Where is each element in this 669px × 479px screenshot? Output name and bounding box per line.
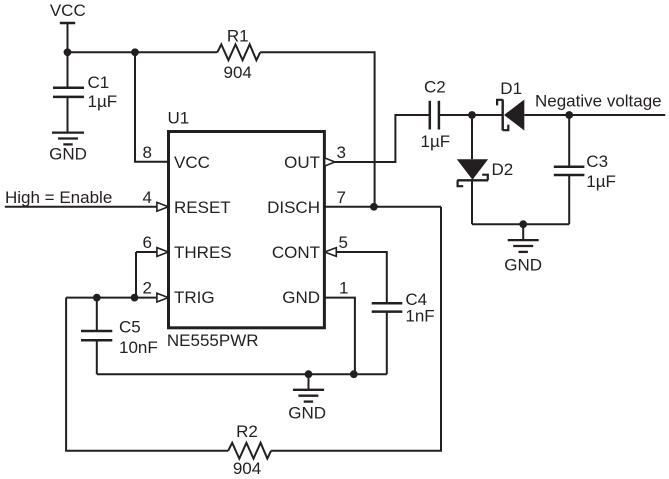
wire R2 to DISCH riser: [271, 207, 441, 451]
diode D1 (Schottky): [497, 79, 524, 131]
wire C2 to D1: [439, 114, 503, 116]
svg-text:6: 6: [143, 233, 152, 252]
svg-text:D2: D2: [492, 160, 514, 179]
svg-text:1nF: 1nF: [405, 307, 434, 326]
svg-text:CONT: CONT: [272, 243, 320, 262]
svg-text:3: 3: [337, 143, 346, 162]
svg-text:GND: GND: [504, 255, 542, 274]
wire RESET input: [5, 206, 157, 208]
svg-text:GND: GND: [282, 288, 320, 307]
svg-text:OUT: OUT: [284, 153, 320, 172]
svg-text:GND: GND: [49, 145, 87, 164]
diode D2 (Schottky): [457, 159, 513, 186]
node C2/D1/D2 junction: [468, 111, 476, 119]
svg-text:R2: R2: [236, 422, 258, 441]
svg-text:VCC: VCC: [174, 153, 210, 172]
svg-text:1: 1: [339, 278, 348, 297]
pin arrow TRIG: [157, 293, 168, 302]
svg-text:THRES: THRES: [174, 243, 232, 262]
wire ground rail: [97, 373, 387, 375]
svg-text:Negative voltage: Negative voltage: [535, 92, 662, 111]
svg-text:C3: C3: [586, 152, 608, 171]
U1 pin 7 DISCH label: [267, 188, 346, 217]
node VCC/C1 junction: [64, 48, 72, 56]
capacitor C2: [421, 78, 451, 151]
ground GND (below C1): [49, 133, 87, 164]
svg-text:DISCH: DISCH: [267, 198, 320, 217]
svg-text:GND: GND: [288, 404, 326, 423]
svg-text:C5: C5: [119, 318, 141, 337]
ground GND (center): [288, 374, 326, 422]
wire D2 to bottom: [471, 180, 473, 224]
svg-text:U1: U1: [168, 109, 190, 128]
svg-text:10nF: 10nF: [119, 338, 158, 357]
wire diode bottom run: [472, 223, 569, 225]
svg-text:D1: D1: [500, 79, 522, 98]
svg-text:1µF: 1µF: [421, 132, 451, 151]
svg-text:904: 904: [224, 63, 252, 82]
pin arrow THRES: [157, 248, 168, 257]
pin arrow OUT: [325, 158, 335, 166]
node TRIG/THRES junction: [131, 294, 139, 302]
svg-text:C2: C2: [424, 78, 446, 97]
wire THRES stub: [136, 251, 157, 253]
U1 pin 1 GND label: [282, 278, 348, 307]
wire CONT to C4: [336, 252, 387, 303]
wire VCC rail: [68, 51, 218, 53]
svg-text:1µF: 1µF: [88, 92, 118, 111]
U1 pin 2 TRIG label: [143, 278, 215, 307]
node VCC/pin8 junction: [131, 48, 139, 56]
svg-text:R1: R1: [227, 26, 249, 45]
ground GND (diode section): [504, 224, 542, 274]
wire pin8 riser: [135, 52, 169, 162]
svg-text:High = Enable: High = Enable: [5, 188, 112, 207]
wire THRES-TRIG link: [135, 252, 137, 298]
capacitor C3: [554, 115, 616, 224]
U1 pin 6 THRES label: [143, 233, 232, 262]
wire TRIG to R2 (left drop and bottom run): [66, 298, 228, 451]
pin arrow CONT: [325, 248, 337, 257]
U1 pin 3 OUT label: [284, 143, 346, 172]
svg-text:VCC: VCC: [50, 1, 86, 20]
IC U1 body: [167, 109, 325, 351]
svg-text:2: 2: [143, 278, 152, 297]
resistor R1: [217, 26, 260, 82]
node rail/GND junction: [305, 370, 313, 378]
svg-text:7: 7: [337, 188, 346, 207]
wire junction to D2: [471, 115, 473, 159]
node D1/C3 junction: [565, 111, 573, 119]
capacitor C1: [53, 52, 117, 132]
svg-text:NE555PWR: NE555PWR: [167, 331, 259, 350]
U1 pin 4 RESET label: [143, 188, 231, 217]
wire OUT to C2: [335, 115, 430, 162]
wire pin1 GND drop: [324, 298, 355, 375]
power flag VCC: [50, 1, 86, 53]
svg-text:TRIG: TRIG: [174, 288, 215, 307]
wire TRIG: [66, 297, 157, 299]
capacitor C4: [372, 290, 435, 374]
capacitor C5: [81, 298, 158, 375]
svg-text:4: 4: [143, 188, 152, 207]
svg-text:5: 5: [339, 233, 348, 252]
wire DISCH: [324, 206, 441, 208]
wire R1 output to DISCH drop: [260, 52, 374, 207]
svg-text:904: 904: [233, 459, 261, 478]
node DISCH/R1 junction: [370, 203, 378, 211]
pin arrow RESET: [157, 202, 168, 211]
node rail/pin1 junction: [350, 370, 358, 378]
wire D1 to output: [524, 114, 665, 116]
node bottom/GND junction: [519, 220, 527, 228]
svg-text:8: 8: [143, 143, 152, 162]
node TRIG/C5 junction: [93, 294, 101, 302]
svg-text:C1: C1: [88, 73, 110, 92]
svg-text:RESET: RESET: [174, 198, 231, 217]
U1 pin 8 VCC label: [143, 143, 210, 172]
U1 pin 5 CONT label: [272, 233, 348, 262]
resistor R2: [228, 422, 271, 478]
svg-text:1µF: 1µF: [586, 172, 616, 191]
